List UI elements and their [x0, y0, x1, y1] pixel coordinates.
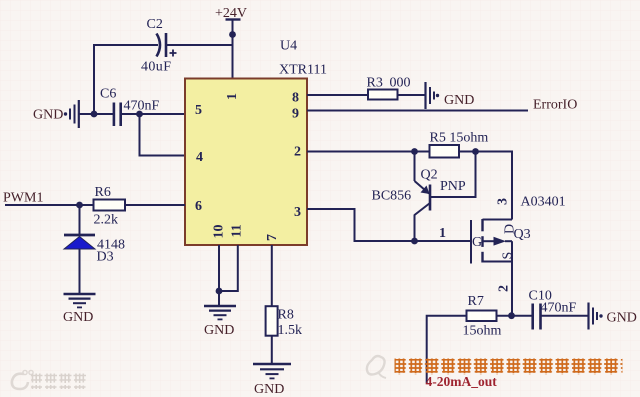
wire	[497, 315, 533, 317]
svg-text:ErrorIO: ErrorIO	[533, 98, 577, 113]
svg-text:R3: R3	[367, 76, 383, 91]
svg-text:1: 1	[439, 226, 446, 241]
watermark company text	[395, 359, 623, 376]
resistor R8	[266, 306, 302, 338]
wire	[307, 151, 430, 153]
svg-text:PNP: PNP	[440, 179, 466, 194]
svg-text:1.5k: 1.5k	[278, 323, 303, 338]
svg-text:R5 15ohm: R5 15ohm	[430, 131, 489, 146]
wire	[79, 205, 81, 235]
resistor R3	[367, 76, 411, 100]
ground GND (near C10)	[589, 303, 637, 330]
wire	[140, 114, 186, 156]
svg-text:GND: GND	[33, 108, 63, 123]
capacitor C10	[529, 289, 577, 330]
resistor R7	[463, 294, 502, 339]
svg-text:GND: GND	[607, 311, 637, 326]
wire	[430, 152, 476, 198]
svg-text:6: 6	[195, 199, 202, 214]
svg-text:BC856: BC856	[372, 189, 412, 204]
watermark grey text	[31, 374, 88, 390]
IC U4 XTR111	[185, 79, 307, 246]
wire	[219, 245, 238, 291]
watermark company logo	[367, 356, 386, 378]
ground GND (near R3)	[426, 82, 475, 109]
svg-text:C6: C6	[100, 87, 116, 102]
resistor R6	[94, 185, 126, 228]
svg-text:U4: U4	[280, 39, 297, 54]
svg-text:11: 11	[230, 224, 245, 237]
svg-text:GND: GND	[444, 93, 474, 108]
wire	[459, 152, 512, 220]
wire	[414, 215, 416, 242]
wire	[125, 204, 185, 206]
svg-text:2: 2	[294, 145, 301, 160]
svg-text:A03401: A03401	[521, 195, 566, 210]
diode D3	[64, 235, 125, 265]
junction dot	[91, 111, 98, 118]
svg-text:GND: GND	[204, 323, 234, 338]
svg-text:2.2k: 2.2k	[94, 213, 119, 228]
svg-text:PWM1: PWM1	[3, 191, 43, 206]
svg-text:9: 9	[292, 107, 299, 122]
svg-text:D3: D3	[97, 250, 114, 265]
svg-text:40uF: 40uF	[141, 60, 171, 75]
svg-text:470nF: 470nF	[541, 301, 577, 316]
wire	[271, 245, 273, 307]
wire	[271, 336, 273, 364]
svg-text:10: 10	[212, 225, 227, 239]
wire	[398, 94, 425, 96]
svg-text:4-20mA_out: 4-20mA_out	[426, 374, 498, 389]
wire	[232, 20, 234, 80]
svg-text:R7: R7	[468, 294, 484, 309]
wire	[414, 152, 416, 182]
junction dot	[216, 288, 223, 295]
power +24V	[215, 6, 247, 21]
svg-text:5: 5	[195, 103, 202, 118]
wire	[121, 113, 185, 115]
svg-text:GND: GND	[254, 382, 284, 397]
svg-text:GND: GND	[63, 310, 93, 325]
wire	[79, 249, 81, 294]
junction dot	[136, 111, 143, 118]
svg-text:XTR111: XTR111	[279, 63, 327, 78]
junction dot	[411, 148, 418, 155]
transistor Q3	[471, 219, 531, 264]
ground GND (under pins 10 11)	[204, 306, 236, 338]
wire	[79, 113, 113, 115]
capacitor C6	[100, 87, 160, 127]
wire	[218, 291, 220, 306]
svg-text:8: 8	[292, 91, 299, 106]
wire	[5, 204, 94, 206]
svg-text:4: 4	[196, 150, 203, 165]
junction dot	[411, 238, 418, 245]
svg-text:470nF: 470nF	[124, 99, 160, 114]
svg-text:R8: R8	[278, 308, 294, 323]
svg-text:15ohm: 15ohm	[463, 324, 502, 339]
ground GND (under R8)	[253, 364, 291, 397]
wire	[427, 316, 467, 383]
wire	[307, 209, 471, 241]
svg-text:3: 3	[294, 205, 301, 220]
junction dot	[229, 31, 236, 38]
svg-text:D: D	[503, 224, 518, 234]
wire	[511, 262, 513, 316]
svg-text:1: 1	[225, 93, 240, 100]
wire	[166, 44, 233, 46]
watermark grey logo	[12, 370, 33, 389]
wire	[307, 94, 368, 96]
svg-text:7: 7	[265, 234, 280, 241]
wire	[307, 110, 528, 112]
svg-text:G: G	[472, 235, 482, 250]
svg-text:3: 3	[496, 198, 511, 205]
svg-text:R6: R6	[95, 185, 111, 200]
svg-text:Q2: Q2	[421, 168, 438, 183]
svg-text:C2: C2	[147, 17, 163, 32]
transistor Q2	[372, 168, 466, 216]
junction dot	[472, 148, 479, 155]
wire	[218, 245, 220, 291]
svg-text:2: 2	[497, 285, 512, 292]
junction dot	[508, 312, 515, 319]
junction dot	[76, 202, 83, 209]
resistor R5	[430, 131, 489, 158]
capacitor C2	[141, 17, 177, 75]
wire	[541, 315, 589, 317]
ground GND (under D3)	[63, 294, 96, 325]
ground GND (near C6)	[33, 100, 79, 128]
wire	[94, 45, 158, 114]
svg-text:S: S	[501, 252, 516, 260]
svg-text:000: 000	[390, 76, 411, 91]
